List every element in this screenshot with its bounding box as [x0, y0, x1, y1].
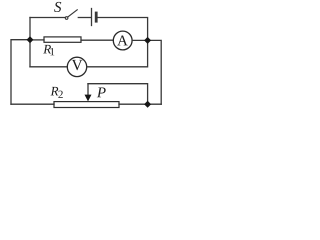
switch S pivot: [65, 17, 68, 20]
wiper P stem: [87, 84, 89, 95]
node A junction dot: [144, 37, 151, 44]
wiper wire P to right vertical, down to node B: [88, 84, 148, 105]
wire voltmeter right lead up to node A: [87, 40, 148, 66]
wire rheostat track to bottom-right corner: [119, 103, 161, 105]
label R2 - subscript 2: [58, 91, 62, 98]
wire R1 to ammeter: [81, 39, 113, 41]
rheostat R2 track box: [54, 102, 119, 108]
wire ammeter to node A: [132, 39, 148, 41]
wire node C to resistor R1: [30, 39, 44, 41]
label R1 - subscript 1: [50, 48, 54, 55]
wire node A to outer right corner, down to bottom-right corner: [148, 40, 162, 104]
battery long plate: [91, 9, 93, 26]
resistor R1 box: [44, 37, 81, 42]
switch S blade: [68, 10, 77, 17]
wire left inner vertical (top corner down to voltmeter branch corner): [29, 18, 31, 67]
voltmeter letter V: [72, 60, 83, 70]
label S: [54, 2, 61, 12]
ammeter A circle: [113, 31, 132, 50]
label R1 - R: [43, 45, 51, 54]
voltmeter V circle: [67, 57, 86, 76]
node C junction dot: [27, 36, 34, 43]
wire node C left to outer-left corner, down to bottom-left corner: [11, 40, 30, 105]
wire bottom-left to rheostat track: [11, 103, 54, 105]
label R2 - R: [51, 87, 59, 96]
wire battery to top-right corner and down to node A: [98, 18, 148, 41]
wire switch contact to battery: [78, 17, 91, 19]
wire voltmeter branch left (corner to V): [30, 66, 67, 68]
battery short thick plate: [95, 13, 98, 21]
node B junction dot: [144, 101, 151, 108]
wiper P arrowhead: [85, 95, 92, 102]
wire top-left segment to switch: [30, 17, 65, 19]
ammeter letter A: [117, 36, 128, 46]
label P: [97, 87, 106, 97]
